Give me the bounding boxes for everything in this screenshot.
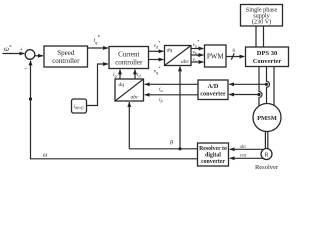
svg-text:Resolver to: Resolver to — [199, 146, 227, 152]
wire summing junction to speed controller — [35, 55, 43, 57]
wire phase A line DPS to PMSM with sensor hop — [259, 67, 262, 107]
svg-text:PMSM: PMSM — [257, 115, 277, 122]
svg-text:digital: digital — [205, 153, 221, 159]
wire omega feedback line — [31, 61, 198, 159]
wire vc* to PWM — [191, 61, 204, 63]
svg-text:DPS 30: DPS 30 — [257, 50, 277, 57]
svg-text:ib: ib — [159, 97, 163, 104]
svg-text:Resolver: Resolver — [255, 164, 279, 171]
wire PWM to DPS converter — [226, 56, 244, 58]
wire supply line 1 to DPS — [255, 26, 257, 47]
wire phase B current measurement to A/D — [229, 83, 266, 85]
wire ia A/D to abc-dq — [145, 83, 198, 85]
wire iq feedback into current controller — [119, 70, 121, 80]
svg-text:id(ref): id(ref) — [74, 105, 84, 110]
wire va* to PWM — [191, 48, 204, 50]
svg-text:dq: dq — [119, 82, 125, 88]
svg-text:iq: iq — [113, 72, 117, 79]
node omega feedback junction dot — [29, 97, 32, 100]
svg-text:(230 V): (230 V) — [252, 19, 271, 26]
svg-text:cos: cos — [240, 154, 247, 159]
wire vq* current controller to dq-abc — [149, 59, 164, 61]
node current tap phase B — [265, 83, 268, 86]
block DPS 30 Converter — [246, 47, 289, 67]
wire omega* input to summing junction — [3, 53, 25, 55]
svg-text:dq: dq — [167, 48, 173, 54]
block Single phase supply — [241, 5, 283, 27]
wire ib A/D to abc-dq — [145, 94, 198, 96]
svg-text:sin: sin — [240, 145, 246, 150]
wire phase A current measurement to A/D — [229, 94, 259, 96]
block Resolver to digital converter — [198, 143, 229, 166]
wire iq* speed controller to current controller — [88, 47, 109, 49]
wire supply line 2 to DPS — [263, 26, 265, 47]
block dq to abc transform T2 — [165, 46, 192, 66]
block abc to dq transform T1 — [115, 79, 144, 101]
block id_ref reference — [72, 99, 87, 113]
block Speed controller — [44, 46, 88, 67]
motor PMSM — [253, 104, 281, 132]
wire id_ref to current controller — [87, 64, 109, 106]
svg-text:controller: controller — [52, 57, 80, 65]
svg-text:R: R — [264, 153, 268, 159]
wire theta up to dq-abc transform — [179, 67, 181, 149]
svg-text:converter: converter — [201, 159, 225, 165]
node theta junction dot — [178, 147, 181, 150]
wire vd* current controller to dq-abc — [149, 50, 164, 52]
svg-text:abc: abc — [181, 59, 190, 65]
wire id feedback into current controller — [134, 70, 136, 80]
svg-text:ω: ω — [43, 153, 47, 159]
svg-text:ia: ia — [159, 87, 163, 94]
svg-text:θ: θ — [170, 141, 173, 147]
svg-text:PWM: PWM — [207, 53, 225, 61]
wire theta horizontal line — [129, 148, 197, 150]
node current tap phase A — [257, 93, 260, 96]
block PWM — [205, 45, 227, 67]
svg-text:abc: abc — [131, 95, 140, 101]
svg-text:−: − — [24, 66, 28, 73]
wire theta up to abc-dq transform — [128, 102, 130, 149]
wire vb* to PWM — [191, 54, 204, 56]
summing junction S1 — [25, 50, 35, 60]
svg-text:Converter: Converter — [253, 58, 282, 65]
block Current controller — [109, 47, 149, 69]
block A/D converter — [198, 80, 228, 100]
wire sin resolver to converter — [230, 148, 263, 150]
wire shaft coupling PMSM to resolver — [264, 132, 266, 149]
svg-text:controller: controller — [115, 58, 143, 66]
svg-text:Speed: Speed — [57, 49, 75, 57]
svg-text:Current: Current — [118, 50, 139, 58]
resolver R — [261, 149, 272, 160]
node bus width slash — [231, 53, 234, 60]
svg-text:converter: converter — [200, 91, 226, 98]
svg-text:+: + — [20, 46, 24, 53]
wire cos resolver to converter — [230, 157, 264, 159]
wire phase B line DPS to PMSM with sensor hop — [267, 67, 270, 104]
wire phase C line DPS to PMSM — [273, 67, 275, 106]
svg-text:A/D: A/D — [208, 83, 219, 90]
